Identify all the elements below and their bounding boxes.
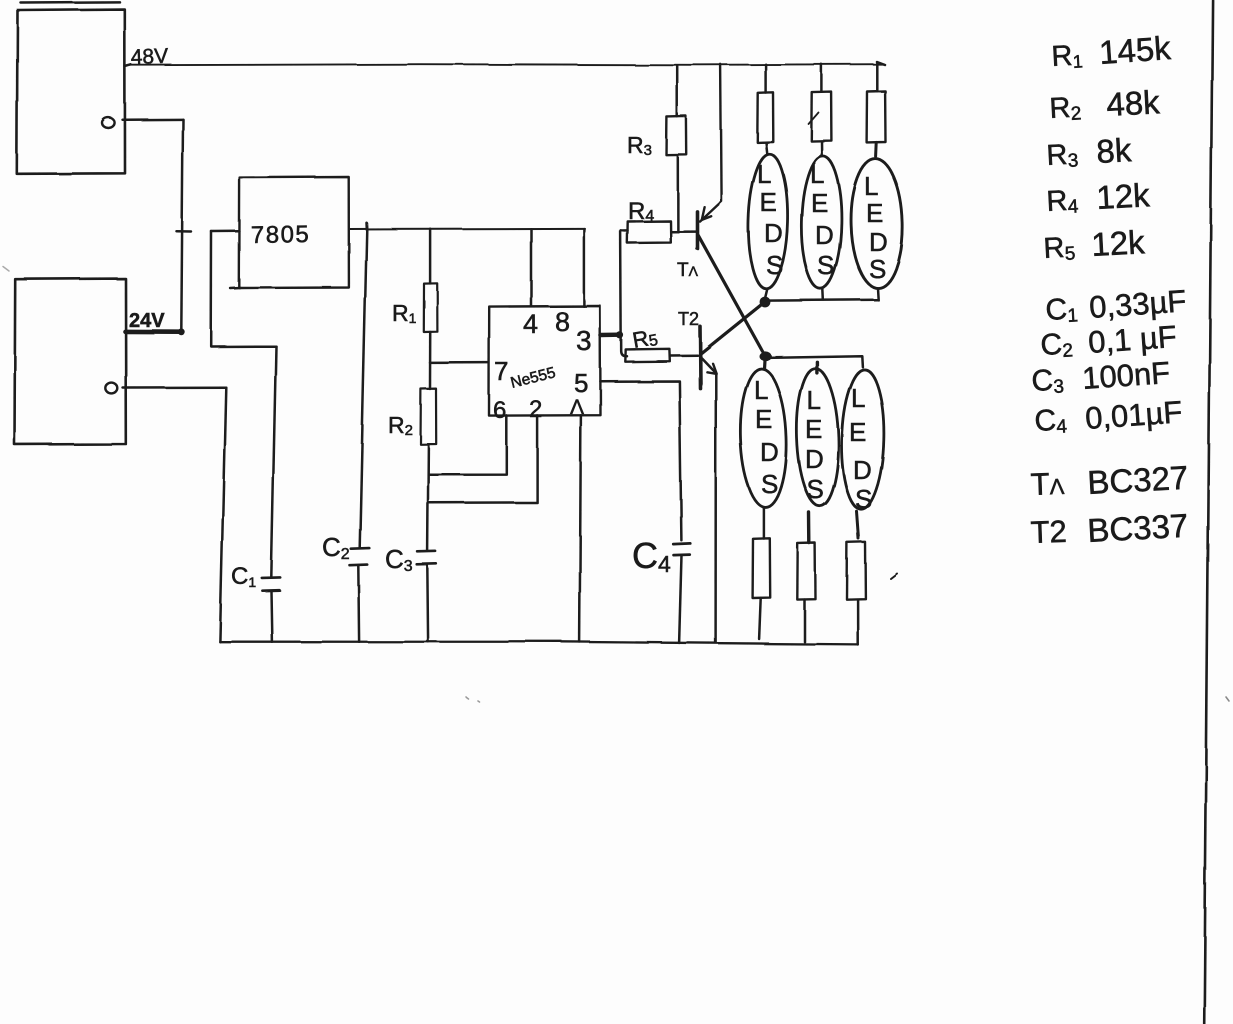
- svg-text:2: 2: [529, 396, 542, 423]
- svg-text:R2: R2: [1049, 91, 1082, 126]
- wire R4 right lead to T1 base: [671, 230, 697, 233]
- resistor R2b body (lower string 2): [797, 543, 815, 600]
- svg-text:E: E: [755, 404, 772, 434]
- wire top lead resistor Rb: [820, 64, 823, 92]
- svg-text:R5: R5: [1043, 231, 1076, 266]
- svg-text:R5: R5: [631, 324, 660, 353]
- svg-text:D: D: [764, 218, 783, 248]
- svg-text:24V: 24V: [129, 310, 165, 332]
- svg-text:S: S: [807, 474, 824, 504]
- svg-text:D: D: [853, 455, 872, 485]
- svg-text:C1: C1: [1045, 292, 1079, 328]
- wire 24V thick link PS2 to series node: [125, 329, 182, 334]
- LED letters string b: [810, 159, 834, 280]
- wire R5 right lead to T2 base: [670, 354, 698, 357]
- wire top lead resistor Ra: [764, 64, 767, 92]
- svg-text:TΛ: TΛ: [677, 260, 699, 281]
- T2 emitter with arrowhead (NPN, outward): [701, 358, 715, 373]
- T2 emitter arrowhead: [707, 363, 716, 373]
- wire top lead resistor Rc: [876, 63, 879, 92]
- capacitor C1 plates: [262, 577, 280, 590]
- wire C2 bottom lead: [357, 565, 360, 641]
- T1 emitter lead from 48V rail: [700, 64, 722, 221]
- svg-text:7805: 7805: [251, 221, 311, 249]
- resistor R5 body: [625, 349, 670, 362]
- svg-text:E: E: [760, 187, 777, 217]
- resistor R4 body: [627, 221, 671, 243]
- resistor Ra body (upper string a): [757, 92, 773, 142]
- wire R1b to ground rail: [759, 598, 761, 639]
- wire lower-LED top bus: [766, 356, 862, 367]
- svg-text:C2: C2: [322, 532, 350, 563]
- resistor Rb body (upper string b): [811, 92, 831, 142]
- svg-text:0,1 µF: 0,1 µF: [1087, 319, 1178, 360]
- wire R3 bottom lead to base node: [677, 155, 680, 231]
- svg-text:12k: 12k: [1095, 176, 1151, 216]
- wire PS2 0-terminal horizontal: [123, 386, 226, 389]
- wire series rail down to 24V node: [181, 119, 183, 332]
- wire upper-LED bottom bus: [765, 299, 877, 302]
- svg-text:T2: T2: [1030, 514, 1067, 550]
- wire C1 top lead: [271, 346, 276, 577]
- wire 48V from PS1 to rail: [125, 65, 131, 67]
- wire pin7 to divider: [430, 361, 489, 364]
- svg-text:145k: 145k: [1098, 29, 1172, 71]
- svg-text:S: S: [761, 469, 778, 499]
- svg-text:48V: 48V: [130, 45, 168, 69]
- svg-text:R3: R3: [1046, 138, 1079, 173]
- LED string 3 oval (lower): [840, 369, 886, 510]
- T2 collector diagonal to upper-LED node: [702, 302, 765, 353]
- svg-text:L: L: [864, 171, 878, 201]
- faint scan specks below schematic: [466, 697, 479, 702]
- wire LED a bottom lead: [765, 289, 767, 297]
- wire C2 top lead from 5V line: [360, 223, 367, 548]
- svg-text:Ne555: Ne555: [509, 364, 557, 392]
- wire LED string 2 top lead: [815, 362, 818, 373]
- regulator 7805 box: [239, 177, 349, 288]
- page edge vertical line (right margin): [1204, 0, 1212, 1024]
- faint tick at right page edge: [1226, 697, 1229, 701]
- svg-text:R1: R1: [392, 300, 417, 326]
- junction dot A (upper LED bottoms): [760, 297, 771, 308]
- wire pin6 down and left: [428, 415, 506, 474]
- svg-text:R3: R3: [627, 132, 652, 159]
- svg-text:R2: R2: [388, 412, 413, 439]
- stray pen slash on Rb: [809, 113, 819, 125]
- wire 7805 output (5V line): [349, 227, 585, 230]
- T1 collector diagonal to lower-LED node: [698, 235, 765, 355]
- svg-text:BC327: BC327: [1086, 459, 1189, 501]
- wire left rail from PS2 0-terminal: [220, 387, 226, 641]
- svg-text:Λ: Λ: [570, 396, 584, 419]
- resistor Rc body (upper string c): [867, 91, 886, 142]
- wire R1 to R2 link: [429, 332, 432, 389]
- wire R4 left lead: [621, 229, 628, 232]
- wire pin5 to C4: [600, 381, 681, 540]
- svg-text:T2: T2: [678, 309, 699, 329]
- LED string b oval: [800, 156, 842, 289]
- svg-text:12k: 12k: [1090, 223, 1146, 263]
- svg-text:D: D: [815, 220, 834, 250]
- transistor T1 base bar: [696, 212, 700, 249]
- wire LED 2 bottom lead: [807, 513, 811, 544]
- svg-text:TΛ: TΛ: [1030, 466, 1065, 502]
- wire Ra to LED string a: [766, 142, 767, 154]
- svg-text:C2: C2: [1040, 327, 1074, 363]
- junction blob at 24V node: [178, 328, 185, 335]
- wire C4 bottom lead: [679, 555, 681, 643]
- svg-text:S: S: [817, 250, 834, 280]
- ground rail (bottom bus): [220, 642, 858, 645]
- wire R2 bottom lead down to C3: [426, 444, 429, 550]
- junction dot B (lower LED tops): [759, 351, 771, 360]
- svg-text:E: E: [811, 188, 828, 218]
- faint scan speck near page left edge: [3, 267, 9, 272]
- svg-text:C1: C1: [231, 563, 256, 590]
- svg-text:C4: C4: [1034, 403, 1068, 439]
- svg-text:S: S: [766, 250, 783, 280]
- svg-text:8: 8: [555, 307, 570, 337]
- svg-text:C4: C4: [632, 535, 671, 577]
- resistor R1 body: [424, 283, 438, 332]
- LED string 1 oval (lower): [738, 368, 789, 509]
- wire into 7805 input: [212, 230, 240, 233]
- capacitor C2 plates: [350, 548, 370, 565]
- LED string c oval: [849, 158, 904, 289]
- svg-text:R4: R4: [1046, 184, 1080, 219]
- svg-text:BC337: BC337: [1086, 507, 1189, 549]
- svg-text:7: 7: [494, 356, 508, 386]
- wire pin4 lead up to 5V: [530, 229, 533, 307]
- junction blob pin3 node: [616, 332, 623, 339]
- PS1 terminal o: [102, 118, 115, 128]
- svg-text:E: E: [866, 198, 883, 228]
- T1 emitter arrowhead (PNP, into bar): [702, 207, 711, 220]
- svg-text:L: L: [851, 383, 865, 413]
- svg-text:R1: R1: [1051, 39, 1084, 73]
- svg-text:C3: C3: [385, 544, 413, 575]
- wire R3 top lead from 48V rail: [676, 66, 679, 117]
- svg-text:E: E: [849, 417, 866, 447]
- wire stub at rail toward 7805 input: [177, 230, 192, 233]
- resistor R2 body: [421, 389, 437, 445]
- svg-text:6: 6: [493, 397, 506, 424]
- svg-text:D: D: [760, 437, 779, 467]
- wire PS1 0-terminal to series node: [123, 118, 184, 121]
- capacitor C4 plates: [673, 543, 690, 555]
- wire pin3 output (thick): [601, 333, 620, 338]
- resistor R1b body (lower string 1): [753, 538, 771, 598]
- wire pin8 lead up to 5V: [583, 229, 586, 307]
- wire R1 top lead from 5V line: [429, 229, 432, 284]
- wire branch from input down (to C1): [211, 232, 276, 347]
- svg-text:L: L: [810, 159, 824, 189]
- PS1 extra top edge (scan cut): [21, 1, 120, 4]
- wire LED 1 bottom lead: [763, 508, 766, 539]
- wire LED 3 bottom lead: [857, 511, 859, 538]
- svg-text:4: 4: [523, 309, 538, 339]
- svg-text:100nF: 100nF: [1081, 355, 1171, 396]
- svg-text:48k: 48k: [1105, 83, 1161, 123]
- resistor R3 body: [667, 116, 687, 155]
- LED letters string 2 (lower): [805, 385, 824, 504]
- wire R2b to ground rail: [803, 600, 806, 642]
- svg-text:L: L: [754, 375, 768, 405]
- wire C1 bottom lead: [270, 591, 273, 642]
- wire C3 bottom lead: [426, 565, 429, 642]
- LED letters string 1 (lower): [754, 375, 779, 499]
- wire pin2 down and left: [428, 415, 537, 502]
- svg-text:L: L: [807, 385, 821, 415]
- svg-text:0,01µF: 0,01µF: [1084, 394, 1183, 436]
- wire LED string 1 top lead: [762, 358, 766, 369]
- 7805 bottom-left overhang: [231, 287, 241, 290]
- svg-text:D: D: [805, 444, 824, 474]
- wire pin1 ground lead: [580, 415, 581, 642]
- svg-text:D: D: [869, 227, 888, 257]
- capacitor C3 plates: [417, 551, 437, 564]
- wire R3b to ground rail: [856, 599, 859, 644]
- 48V rail end tick: [877, 62, 885, 65]
- timer IC NE555 box: [489, 306, 601, 416]
- svg-text:3: 3: [576, 325, 592, 356]
- svg-text:S: S: [869, 254, 886, 284]
- wire T2 emitter down to ground rail: [714, 373, 717, 642]
- power supply box PS2 (24V source): [15, 279, 126, 445]
- svg-text:E: E: [805, 414, 822, 444]
- svg-text:C3: C3: [1031, 363, 1065, 399]
- LED string 2 oval (lower): [795, 368, 841, 507]
- svg-text:R4: R4: [628, 198, 654, 225]
- svg-text:8k: 8k: [1095, 131, 1132, 170]
- LED letters string 3 (lower): [849, 383, 872, 514]
- wire LED b bottom lead: [822, 289, 825, 300]
- node 48V rail (top horizontal wire): [130, 64, 884, 65]
- stray mark right of lower resistors: [891, 574, 898, 579]
- svg-text:L: L: [757, 159, 771, 189]
- LED letters string c: [864, 171, 888, 284]
- wire Rc to LED string c: [874, 142, 878, 156]
- wire Rb to LED string b: [820, 141, 823, 156]
- svg-text:S: S: [855, 484, 872, 514]
- transistor T2 base bar: [698, 326, 702, 388]
- svg-text:5: 5: [574, 368, 588, 398]
- LED string a oval: [747, 154, 790, 290]
- wire LED c bottom lead: [876, 288, 879, 300]
- PS2 terminal o: [105, 383, 117, 394]
- power supply box PS1 (48V source): [17, 10, 125, 174]
- resistor R3b body (lower string 3): [847, 542, 866, 599]
- LED letters string a: [757, 159, 783, 280]
- wire base node vertical (R4 left to R5 left): [621, 230, 627, 356]
